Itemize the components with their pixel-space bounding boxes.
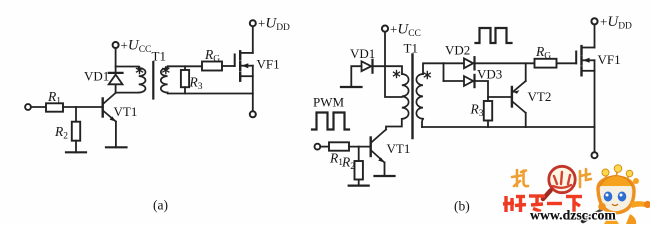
wire input to R1: [31, 106, 46, 108]
svg-text:VD1: VD1: [350, 46, 375, 61]
svg-text:PWM: PWM: [313, 95, 345, 110]
polarity dot (b primary): [394, 71, 400, 78]
watermark red text wei ku yi xia: [503, 196, 582, 212]
resistor RG (a): [202, 62, 222, 71]
bottom rail (b): [422, 126, 595, 128]
wire source down to output: [252, 66, 254, 112]
wire to VD2 anode: [444, 62, 465, 64]
resistor RG (b): [535, 59, 557, 68]
wire VD1 cathode to primary top: [373, 66, 403, 74]
wire VD junction vertical: [443, 63, 445, 81]
transformer T1 (b) secondary winding: [416, 74, 423, 119]
watermark mascot: [583, 165, 650, 224]
wire R1 to base: [63, 106, 102, 108]
svg-text:VT1: VT1: [387, 141, 411, 156]
ground (b VT1): [375, 175, 395, 177]
wire input to R1: [320, 146, 329, 148]
input terminal (a): [25, 104, 31, 110]
polarity dot (a secondary): [163, 67, 169, 74]
transistor VT1 (a): [103, 93, 116, 122]
MOSFET VF1 (a): [235, 51, 253, 80]
watermark magnifier with chip char: [549, 166, 575, 192]
svg-text:+UDD: +UDD: [600, 14, 632, 32]
core T1 (b): [411, 55, 413, 139]
diode VD1 (b): [362, 60, 373, 73]
svg-text:+UDD: +UDD: [258, 16, 290, 34]
transistor VT1 (b): [371, 130, 386, 163]
svg-text:T1: T1: [404, 41, 418, 56]
diode VD1 (a): [109, 73, 123, 84]
svg-text:VT1: VT1: [114, 104, 138, 119]
wire RG to gate: [557, 62, 577, 64]
wire secondary top: [168, 66, 202, 68]
wire VD2 cathode to RG: [475, 62, 535, 64]
resistor R1 (b): [329, 142, 349, 150]
svg-text:VD3: VD3: [477, 67, 502, 82]
wire R2 to ground: [358, 180, 360, 186]
ground (b VD1): [341, 86, 362, 88]
transformer T1 (a) primary winding: [139, 68, 146, 93]
svg-text:+UCC: +UCC: [390, 22, 421, 40]
core T1 (a): [152, 62, 154, 99]
svg-text:(b): (b): [454, 199, 470, 214]
wire R2 to ground: [75, 141, 77, 153]
wire UCC down to primary tap: [385, 32, 402, 97]
wire VT2 emitter up: [525, 63, 527, 81]
svg-text:VD2: VD2: [445, 43, 470, 58]
wire VD1 anode to ground: [351, 66, 361, 87]
wire base VT2: [488, 96, 512, 98]
svg-text:R2: R2: [54, 124, 68, 142]
wire primary bottom to collector node: [116, 92, 139, 94]
wire node to R2: [75, 107, 77, 122]
wire node to R2: [358, 147, 360, 161]
PWM pulse waveform: [312, 113, 349, 130]
svg-text:RG: RG: [535, 44, 551, 62]
polarity dot (a primary): [137, 67, 143, 74]
wire secondary top: [423, 63, 444, 74]
svg-text:T1: T1: [152, 49, 166, 64]
wire drain to UDD: [252, 26, 254, 53]
watermark char pian: [580, 169, 591, 187]
wire emitter to ground: [115, 122, 117, 148]
wire to VD3 anode: [444, 80, 465, 82]
terminal +UCC (b): [382, 26, 388, 32]
transistor VT2: [512, 81, 526, 113]
ground (a R2): [66, 151, 86, 153]
wire R3 to rail: [487, 121, 489, 128]
resistor R2 (b): [355, 161, 363, 180]
MOSFET VF1 (b): [576, 46, 594, 75]
diode VD2: [464, 57, 475, 69]
wire diode cathode to UCC node: [115, 48, 117, 73]
pulse waveform (b top): [476, 28, 512, 43]
svg-text:VF1: VF1: [257, 57, 280, 72]
watermark char zhao: [512, 170, 528, 186]
wire collector up to diode anode: [115, 84, 117, 93]
wire drain to UDD: [594, 25, 596, 48]
wire collector to primary bottom: [386, 119, 402, 130]
resistor R2 (a): [72, 122, 80, 141]
svg-text:RG: RG: [204, 47, 220, 65]
transformer T1 (b) primary winding: [402, 74, 409, 119]
bottom rail (a): [168, 92, 253, 95]
svg-text:R1: R1: [47, 89, 61, 107]
wire UCC node to primary top: [116, 67, 139, 69]
terminal +UDD (a): [250, 20, 256, 26]
svg-text:(a): (a): [153, 198, 168, 213]
wire source down to output: [594, 60, 596, 152]
svg-text:R3: R3: [189, 75, 203, 93]
terminal +UDD (b): [591, 18, 597, 24]
wire R3 stub top: [184, 66, 186, 70]
wire RG to gate: [222, 65, 235, 67]
svg-text:VF1: VF1: [598, 52, 621, 67]
output terminal (b): [592, 152, 598, 158]
resistor R3 (a): [181, 70, 189, 87]
terminal +UCC (a): [113, 42, 119, 48]
wire R1 to base: [349, 146, 370, 148]
ground (b R2): [349, 185, 369, 187]
transformer T1 (a) secondary winding: [161, 68, 168, 93]
svg-text:R3: R3: [470, 102, 484, 120]
svg-text:VT2: VT2: [528, 89, 552, 104]
ground (a VT1): [106, 146, 127, 148]
svg-text:R2: R2: [341, 155, 355, 173]
svg-text:+UCC: +UCC: [121, 38, 152, 56]
svg-text:VD1: VD1: [84, 69, 109, 84]
wire secondary bottom to rail: [422, 119, 423, 127]
wire emitter to ground: [384, 163, 386, 177]
wire VD3 cathode to R3 node: [475, 81, 489, 101]
wire R3 bottom: [184, 87, 186, 93]
wire VT2 collector down: [525, 113, 527, 127]
svg-text:www.dzsc.com: www.dzsc.com: [530, 208, 616, 223]
output terminal (a): [250, 111, 256, 117]
resistor R1 (a): [46, 103, 63, 111]
diode VD3: [464, 75, 475, 87]
input terminal (b): [315, 144, 321, 150]
resistor R3 (b): [484, 101, 492, 121]
polarity dot (b secondary): [424, 72, 430, 79]
